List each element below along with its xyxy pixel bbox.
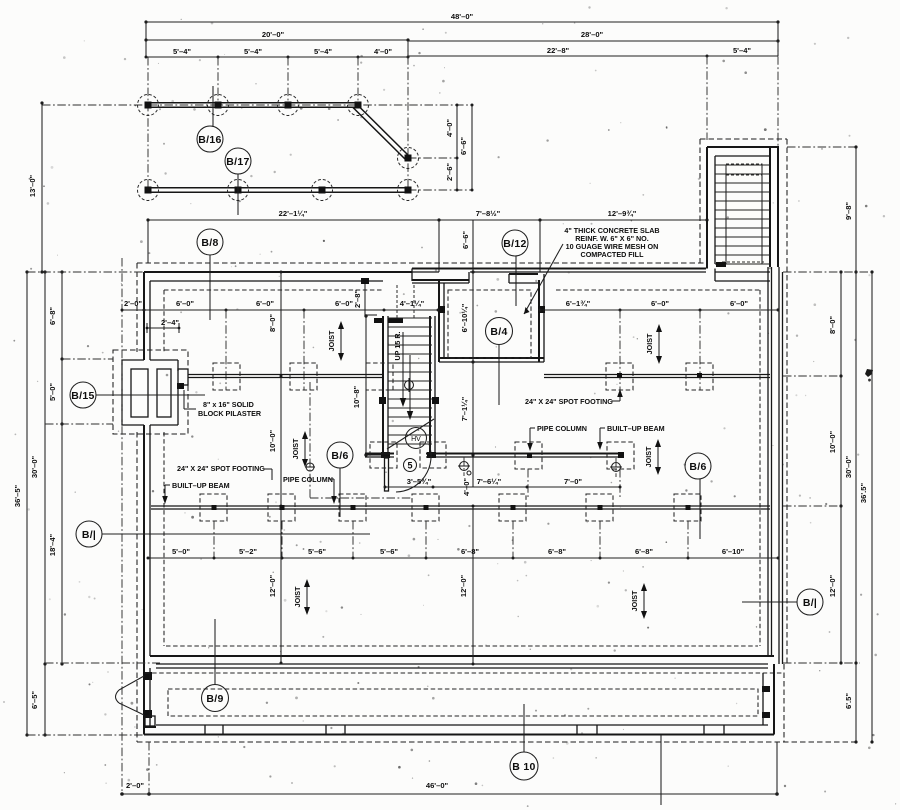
svg-text:UP 15 R.: UP 15 R. [393, 331, 402, 360]
svg-text:10'–0": 10'–0" [268, 429, 277, 452]
svg-text:B/4: B/4 [490, 326, 507, 338]
deck column b1-2 [208, 95, 229, 116]
dimension 8'-0" 10'-0" 12'-0" right [828, 270, 843, 664]
footing stair left [370, 442, 397, 468]
svg-text:24" X 24" SPOT FOOTING: 24" X 24" SPOT FOOTING [525, 397, 613, 406]
dimension 5'-4" right [707, 46, 778, 56]
svg-text:18'–4": 18'–4" [48, 533, 57, 556]
label 5 circle [404, 459, 417, 472]
svg-text:2'–6": 2'–6" [445, 163, 454, 181]
svg-text:B/9: B/9 [206, 693, 223, 705]
svg-text:B/6: B/6 [689, 461, 706, 473]
svg-text:6'–6": 6'–6" [461, 231, 470, 249]
dimension 36'-5" right [859, 270, 874, 743]
svg-text:B/6: B/6 [331, 450, 348, 462]
porch inner dashed [168, 689, 758, 716]
svg-text:BLOCK PILASTER: BLOCK PILASTER [198, 409, 262, 418]
centerline row at deck beam 2 [408, 189, 472, 191]
built-up beam row A right [544, 373, 770, 378]
dimension 8'-0"/10'-0"/12'-0" left interior vertical [268, 271, 283, 665]
svg-text:6'–0": 6'–0" [256, 299, 274, 308]
dimension 13'-0" left [28, 101, 44, 273]
dimension 30'-0" left [30, 270, 47, 736]
svg-text:5: 5 [407, 461, 412, 471]
mid dimension row 22'-1 1/4" / 7'-8 1/2" / 12'-9 3/4" [146, 209, 708, 272]
svg-text:22'–8": 22'–8" [547, 46, 570, 55]
extension centerline pilaster bottom [45, 423, 113, 425]
note pipe column left [283, 475, 337, 504]
svg-text:30'–0": 30'–0" [844, 455, 853, 478]
ink blot artifact [865, 369, 873, 381]
pipe column circle row B mid [458, 457, 470, 476]
wall right main lower [768, 267, 783, 664]
svg-text:36'–5": 36'–5" [13, 484, 22, 507]
svg-text:13'–0": 13'–0" [28, 174, 37, 197]
dimension line 48'-0" top row [144, 12, 779, 57]
interior dim row left room [121, 299, 440, 312]
right side centerline row B [783, 505, 841, 507]
svg-text:10'–8": 10'–8" [352, 385, 361, 408]
built-up beam row A left [188, 375, 383, 378]
extension line building top left [27, 271, 144, 273]
svg-text:12'–9¾": 12'–9¾" [608, 209, 637, 218]
interior dim row right room [539, 299, 780, 312]
furnace HV circle [406, 428, 427, 449]
built-up beam row C [151, 506, 770, 509]
svg-text:5'–6": 5'–6" [380, 547, 398, 556]
svg-text:COMPACTED FILL: COMPACTED FILL [581, 250, 645, 259]
right side centerline top [783, 271, 872, 273]
right side centerline row A [783, 375, 841, 377]
svg-text:6'–10¼": 6'–10¼" [460, 303, 469, 332]
footing C7 [674, 494, 701, 558]
centerline pipe column left bay [305, 382, 412, 498]
stair landing dashed [397, 285, 414, 318]
stairwell exterior top-right walls [707, 147, 779, 269]
wall left at cellar door [143, 672, 152, 727]
svg-text:2'–4": 2'–4" [161, 318, 179, 327]
footing C3 [339, 494, 366, 558]
note 24x24 spot footing left [177, 464, 272, 480]
footing A1 [213, 363, 240, 390]
wall bottom main [150, 656, 774, 664]
footing A5 [606, 363, 633, 390]
deck column diagonal end [398, 148, 419, 169]
joist label 6 [630, 583, 647, 619]
svg-text:6'–10": 6'–10" [722, 547, 745, 556]
centerline footing A1 [225, 310, 227, 390]
note block pilaster [184, 390, 262, 418]
centerline footing A2 [303, 310, 305, 390]
svg-text:6'–0": 6'–0" [176, 299, 194, 308]
deck diagonal beam [353, 104, 409, 161]
svg-text:5'–4": 5'–4" [733, 46, 751, 55]
dimension 6'-10 1/4" and 7'-1 1/4" vertical [460, 220, 475, 487]
svg-text:7'–8½": 7'–8½" [476, 209, 501, 218]
dimension 6'-6" deck right [459, 104, 474, 192]
note built-up beam left [162, 481, 229, 504]
svg-text:46'–0": 46'–0" [426, 781, 449, 790]
dimension 22'-8" [408, 46, 709, 58]
joist label 2 [645, 324, 662, 364]
dimension row 5'-4" / 5'-4" / 5'-4" / 4'-0" [145, 47, 410, 59]
dimension line 28'-0" [408, 30, 780, 57]
footing A3 under stair [366, 363, 393, 390]
centerline footing A5 [619, 310, 621, 390]
svg-text:6'–8": 6'–8" [48, 307, 57, 325]
interior stair treads [388, 318, 432, 444]
svg-text:5'–2": 5'–2" [239, 547, 257, 556]
stairwell bottom dashed [722, 261, 764, 263]
svg-text:2'–8": 2'–8" [353, 290, 362, 308]
label B10 [510, 704, 538, 780]
B4 room inner dashed [448, 290, 531, 358]
dimension 4'-0" / 2'-6" deck right [445, 104, 459, 192]
svg-text:36'.5": 36'.5" [859, 483, 868, 504]
label B/4 [486, 318, 513, 406]
svg-text:8'–0": 8'–0" [268, 314, 277, 332]
svg-text:6'–1¾": 6'–1¾" [566, 299, 591, 308]
grid centerline extensions top deck [148, 41, 778, 190]
svg-text:5'–6": 5'–6" [308, 547, 326, 556]
cellar door entry [116, 676, 145, 715]
centerline row at deck beam 1 [42, 104, 472, 106]
stair break diagonal [387, 419, 434, 449]
centerline at diagonal beam end [408, 157, 458, 159]
footing dashed inner bottom room [164, 432, 758, 646]
svg-text:8'–0": 8'–0" [828, 316, 837, 334]
footing row B mid [515, 442, 542, 497]
label B/17 [225, 148, 251, 215]
svg-text:7'–1¼": 7'–1¼" [460, 396, 469, 421]
svg-text:48'–0": 48'–0" [451, 12, 474, 21]
label B/12 [502, 230, 528, 306]
svg-text:9'–8": 9'–8" [844, 202, 853, 220]
interior stair walls [374, 316, 439, 458]
note concrete slab [524, 226, 660, 314]
porch outer dashed [137, 664, 856, 742]
joist label 5 [293, 579, 310, 615]
svg-text:JOIST: JOIST [327, 330, 336, 351]
svg-text:7'–0": 7'–0" [564, 477, 582, 486]
wall top-left section outer [144, 272, 412, 281]
svg-text:PIPE COLUMN: PIPE COLUMN [537, 424, 587, 433]
pipe column circle row B right [610, 458, 622, 477]
deck column b2-4 [398, 180, 419, 201]
extension porch bottom left [27, 734, 146, 736]
label B/1 right [742, 589, 823, 615]
svg-text:6'–0": 6'–0" [730, 299, 748, 308]
footing C4 [412, 494, 439, 558]
note built-up beam right [597, 424, 664, 450]
svg-text:HV: HV [411, 436, 421, 443]
svg-text:6'–8": 6'–8" [461, 547, 479, 556]
svg-text:10'–0": 10'–0" [828, 430, 837, 453]
svg-text:B/15: B/15 [71, 390, 94, 402]
dimension 12'-0" right interior vertical [459, 505, 475, 666]
dimension row 3'-5 3/4" 7'-6 1/4" 7'-0" [384, 477, 622, 489]
wall top right section [412, 269, 706, 282]
footing A2 [290, 363, 317, 390]
label B/6 right [685, 453, 711, 539]
svg-text:JOIST: JOIST [645, 333, 654, 354]
svg-text:JOIST: JOIST [291, 438, 300, 459]
svg-text:20'–0": 20'–0" [262, 30, 285, 39]
deck column b1-3 [278, 95, 299, 116]
built-up beam row B [426, 452, 624, 458]
svg-text:7'–6¼": 7'–6¼" [477, 477, 502, 486]
svg-text:2'–0": 2'–0" [124, 299, 142, 308]
svg-text:6'–0": 6'–0" [335, 299, 353, 308]
label B/1 left [76, 521, 370, 547]
svg-text:5'–4": 5'–4" [314, 47, 332, 56]
label B/6 left [327, 442, 353, 517]
svg-text:JOIST: JOIST [644, 446, 653, 467]
wall left upper section [144, 272, 150, 360]
stair down arrow 2 [407, 355, 413, 420]
bottom dimension row 2'-0" 46'-0" [120, 742, 779, 796]
svg-text:5'–4": 5'–4" [244, 47, 262, 56]
extension centerline building bottom left [45, 662, 160, 664]
pilaster B/15 block [122, 360, 188, 425]
svg-text:6'–8": 6'–8" [548, 547, 566, 556]
pilaster footing dashed [113, 350, 188, 434]
dimension 4'-0" pipe col vertical [462, 471, 471, 496]
svg-text:12'–0": 12'–0" [459, 574, 468, 597]
wall interior seg above stair [412, 272, 469, 283]
note 24x24 spot footing right [525, 389, 623, 406]
svg-text:B/12: B/12 [503, 238, 526, 250]
footing row B right [607, 442, 634, 497]
footing C2 [268, 494, 295, 558]
section line below porch [660, 735, 662, 805]
svg-text:12'–0": 12'–0" [268, 574, 277, 597]
svg-text:6'–0": 6'–0" [651, 299, 669, 308]
footing dashed left lower outer [136, 432, 138, 664]
dim 2'-8" small vertical [353, 278, 377, 315]
footing dashed right outer [786, 139, 788, 664]
footing dashed building outer top [137, 262, 704, 264]
svg-text:B/16: B/16 [198, 134, 221, 146]
note pipe column right [527, 424, 587, 451]
svg-text:30'–0": 30'–0" [30, 455, 39, 478]
door swing arc [396, 444, 431, 492]
svg-text:B 10: B 10 [512, 761, 535, 773]
svg-text:B/|: B/| [82, 529, 96, 541]
dimension 36'-5" left [13, 270, 29, 736]
dimension 10'-8" stair [352, 314, 381, 456]
deck column b2-3 [312, 180, 333, 201]
svg-text:5'–0": 5'–0" [48, 383, 57, 401]
deck column b2-1 [138, 180, 159, 201]
wall left lower section [144, 425, 150, 672]
svg-text:3'–5¾": 3'–5¾" [407, 477, 432, 486]
stairwell footing dashed [700, 139, 787, 263]
svg-text:4'–0": 4'–0" [462, 478, 471, 496]
door leaf at stair [385, 458, 389, 491]
wall notch seg B4 top [509, 274, 538, 283]
label B/4 room walls [438, 274, 545, 362]
porch bottom wall [144, 725, 774, 735]
dimension 6'-8" 5'-0" 18'-4" left [48, 270, 64, 665]
svg-text:PIPE COLUMN: PIPE COLUMN [283, 475, 333, 484]
svg-text:24" X 24" SPOT FOOTING: 24" X 24" SPOT FOOTING [177, 464, 265, 473]
svg-text:6'–6": 6'–6" [459, 137, 468, 155]
joist label 4 [644, 439, 661, 475]
deck column b1-1 [138, 95, 159, 116]
dimension 30'-0" 6'-5" right [844, 455, 858, 743]
porch left wall [144, 668, 156, 735]
stair down arrow 1 [400, 332, 406, 407]
svg-text:BUILT–UP BEAM: BUILT–UP BEAM [607, 424, 665, 433]
svg-text:BUILT–UP BEAM: BUILT–UP BEAM [172, 481, 230, 490]
deck beam row 1 [148, 103, 358, 108]
footing dashed inner top-left room [164, 290, 383, 352]
svg-text:4'–0": 4'–0" [445, 119, 454, 137]
deck beam row 2 [148, 188, 408, 193]
label B/16 [197, 86, 223, 152]
svg-text:6'.5": 6'.5" [844, 693, 853, 709]
stair marker diamond [405, 378, 414, 392]
footing dashed inner right room [556, 290, 760, 646]
svg-text:B/|: B/| [803, 597, 817, 609]
right side centerline bottom [783, 662, 860, 664]
label B/15 [70, 382, 205, 408]
svg-text:4'–1¼": 4'–1¼" [400, 299, 425, 308]
svg-text:12'–0": 12'–0" [828, 574, 837, 597]
svg-text:4'–0": 4'–0" [374, 47, 392, 56]
row C pipe column pips [212, 505, 691, 510]
svg-text:2'–0": 2'–0" [126, 781, 144, 790]
svg-text:22'–1¼": 22'–1¼" [279, 209, 308, 218]
joist label 3 [291, 431, 308, 467]
stairwell treads [715, 165, 770, 264]
stairwell inner dashed landing [726, 164, 762, 175]
deck column b1-4 [348, 95, 369, 116]
dimension line 20'-0" [144, 30, 409, 42]
wall seg below stairwell [715, 269, 770, 282]
label B/9 [202, 619, 229, 712]
centerline 2'-0" offset left [121, 258, 123, 794]
footing C5 [499, 494, 526, 558]
footing stair right [420, 442, 446, 468]
svg-text:B/17: B/17 [226, 156, 249, 168]
svg-text:6'–8": 6'–8" [635, 547, 653, 556]
svg-text:28'–0": 28'–0" [581, 30, 604, 39]
svg-text:JOIST: JOIST [630, 590, 639, 611]
footing dashed building left outer [136, 263, 138, 352]
svg-text:JOIST: JOIST [293, 586, 302, 607]
svg-text:5'–0": 5'–0" [172, 547, 190, 556]
deck column b2-2 [228, 180, 249, 201]
dimension row lower 5'-0" ... 6'-10" [147, 547, 780, 560]
svg-text:8" x 16" SOLID: 8" x 16" SOLID [203, 400, 254, 409]
footing A6 [686, 363, 713, 390]
dimension 9'-8" right of stairwell [787, 145, 858, 741]
svg-text:6'–5": 6'–5" [30, 691, 39, 709]
footing C6 [586, 494, 613, 558]
extension centerline pilaster top [62, 358, 113, 360]
footing C1 [200, 494, 227, 558]
wall at stair bottom row B left [365, 454, 394, 458]
dim 2'-4" small [146, 318, 181, 333]
porch top edge [145, 668, 783, 673]
porch right wall [762, 664, 774, 735]
label B/8 [197, 229, 223, 320]
joist label 1 [327, 321, 344, 361]
wall right stairwell part [770, 147, 778, 267]
svg-text:B/8: B/8 [201, 237, 218, 249]
svg-text:5'–4": 5'–4" [173, 47, 191, 56]
centerline footing A6 [699, 310, 701, 390]
